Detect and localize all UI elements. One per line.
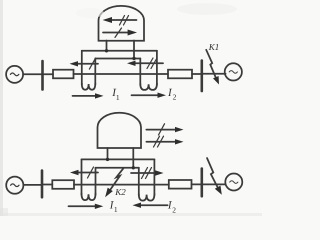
wire1 (upper pilot wire) — [82, 50, 157, 52]
svg-text:K2: K2 — [114, 187, 126, 197]
wire bus1 to reactor box1 — [43, 73, 54, 75]
junction dot on wire1b — [106, 158, 109, 161]
fault K2 lightning (internal fault) — [105, 168, 123, 197]
primary current arrow I2 (top) — [132, 93, 167, 98]
svg-text:2: 2 — [172, 205, 176, 214]
faint paper smudge (scan noise) — [177, 3, 237, 15]
relay dome leg left — [106, 41, 108, 51]
junction dot on wire2 — [132, 57, 135, 60]
CT2 left lead — [139, 59, 141, 86]
CT1 secondary coil — [82, 84, 96, 90]
fault lightning at right (bottom, unlabeled) — [207, 158, 222, 195]
generator G2b (bottom right) — [225, 174, 242, 191]
CT1b left lead — [81, 159, 83, 194]
faint scan streak at bottom edge — [0, 213, 262, 216]
bus bar B2 (top right) — [201, 61, 204, 92]
relay dome leg right — [133, 41, 135, 59]
reactor box2 (top right) — [168, 70, 192, 79]
wire / protected line (top main line) — [74, 73, 169, 75]
svg-text:K1: K1 — [208, 42, 220, 52]
dome arrow upper (points left, double slash) — [103, 16, 137, 26]
CT2 right lead — [156, 51, 158, 85]
faint scan streak at left edge — [0, 0, 3, 216]
CT1b right lead — [95, 168, 97, 195]
reactor box2b (bottom right) — [169, 180, 192, 189]
unbalance arrow lower (right of dome-b, double slash) — [146, 136, 183, 147]
wire2 (lower pilot wire) — [95, 58, 140, 60]
reactor box1 (top left) — [53, 70, 74, 79]
primary current arrow I1b — [69, 204, 104, 209]
svg-text:1: 1 — [114, 205, 118, 214]
CT2 secondary coil — [140, 84, 157, 90]
wire box2 to bus2 — [192, 73, 202, 75]
dome-b leg right — [132, 148, 134, 168]
junction dot on wire1 — [105, 49, 108, 52]
reactor box1b (bottom left) — [52, 180, 74, 189]
bus bar B2b (bottom right) — [201, 169, 204, 197]
wire1b (upper pilot wire, bottom diagram) — [82, 158, 155, 160]
primary current arrow I1 (top) — [73, 93, 104, 98]
fault K1 lightning — [206, 50, 219, 85]
wire bus1b to box1b — [42, 184, 52, 186]
dome arrow lower (points right, single slash) — [103, 28, 137, 37]
wire G1b to bus1b — [23, 184, 42, 186]
CT2b right lead — [153, 159, 155, 195]
unbalance arrow upper (right of dome-b, single slash) — [146, 124, 183, 135]
generator G1 (top left) — [6, 66, 23, 83]
relay dome KD (bottom) — [98, 113, 142, 148]
generator G1b (bottom left) — [6, 177, 23, 194]
relay dome KD (top) — [99, 6, 145, 41]
wire bus2b to G2b — [202, 183, 226, 185]
svg-text:2: 2 — [173, 93, 177, 102]
wire bus2 to G2 — [202, 73, 226, 75]
wire G1 to bus1 — [23, 73, 42, 75]
CT1 left lead — [81, 51, 83, 85]
secondary current arrow A1 (left of CT1, points left, one slash) — [70, 58, 99, 69]
secondary current arrow A1b (points left, one slash) — [70, 167, 98, 178]
bus bar B1 (top left) — [41, 61, 44, 90]
CT1b secondary coil — [82, 194, 96, 201]
protected line (bottom main line) — [74, 184, 169, 186]
CT1 right lead — [94, 59, 96, 85]
wire box2b to bus2b — [192, 183, 202, 185]
junction dot on wire2b — [132, 166, 135, 169]
generator G2 (top right) — [225, 63, 242, 80]
svg-text:1: 1 — [116, 93, 120, 102]
secondary current arrow A2 (left of CT2 tail, points left, double slash) — [127, 58, 163, 69]
dome-b leg left — [107, 148, 109, 159]
primary current arrow I2b (points left) — [133, 203, 168, 208]
secondary current arrow A2b (points right, double slash) — [131, 168, 164, 179]
CT2b secondary coil — [139, 194, 155, 201]
wire2b (lower pilot wire, bottom diagram) — [96, 167, 139, 169]
CT2b left lead — [138, 168, 140, 195]
bus bar B1b (bottom left) — [41, 171, 44, 198]
